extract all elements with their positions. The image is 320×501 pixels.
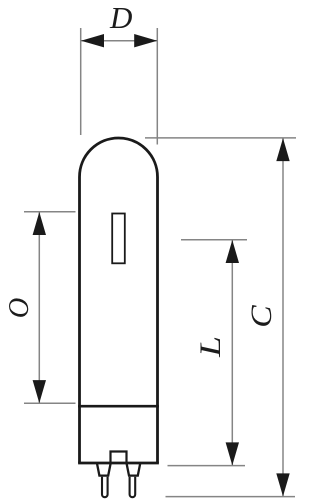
dimension O arrow shaft <box>38 212 40 403</box>
dimension L arrowhead bottom <box>226 442 239 465</box>
right pin collar <box>127 464 141 476</box>
dimension O extension line bottom <box>24 402 76 404</box>
center tab on base <box>111 452 127 463</box>
arc tube (inner rectangle) <box>112 214 125 264</box>
dimension D extension line left <box>80 28 82 135</box>
tube/base junction line <box>78 405 159 408</box>
dimension D extension line right <box>156 28 158 145</box>
right pin stem <box>130 477 136 497</box>
left pin stem <box>102 477 108 497</box>
svg-text:O: O <box>4 298 35 319</box>
dimension L arrow shaft <box>231 240 233 465</box>
dimension C arrow shaft <box>282 138 284 496</box>
dimension C arrowhead top <box>276 138 289 161</box>
svg-text:C: C <box>245 305 278 328</box>
dimension D arrowhead right <box>134 34 157 47</box>
lamp bulb tube outline <box>80 138 158 407</box>
dimension D arrowhead left <box>81 34 104 47</box>
dimension C extension line top <box>145 137 296 139</box>
dimension L arrowhead top <box>226 240 239 263</box>
svg-text:D: D <box>109 0 132 35</box>
base bottom line <box>78 462 159 465</box>
dimension C arrowhead bottom <box>276 473 289 496</box>
dimension L extension line top <box>181 239 247 241</box>
dimension O arrowhead top <box>33 212 46 235</box>
dimension O arrowhead bottom <box>33 380 46 403</box>
base body <box>80 406 158 463</box>
left pin collar <box>97 464 111 476</box>
dimension L extension line bottom <box>168 465 246 467</box>
dimension C extension line bottom <box>166 496 296 498</box>
dimension O extension line top <box>24 211 76 213</box>
svg-text:L: L <box>194 336 227 358</box>
dimension D arrow shaft <box>81 40 157 42</box>
